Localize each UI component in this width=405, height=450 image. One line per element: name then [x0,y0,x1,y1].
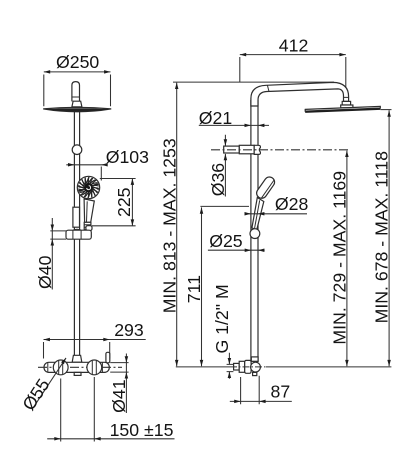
svg-text:Ø36: Ø36 [208,163,228,197]
dimension 293 extension lines [44,342,110,359]
valve centerline [176,366,392,368]
wall union stub [234,363,240,370]
slider bracket [66,230,91,239]
riser pipe right column [251,101,258,362]
arm end nut [342,101,350,105]
svg-text:Ø250: Ø250 [56,52,99,72]
dimension 87 extension lines [241,376,260,405]
overhead shower stub [72,82,80,102]
dimension 711 extension line [200,205,249,207]
dimension 412 line [240,54,346,56]
overhead shower disk [43,107,111,111]
top extension line for MIN 813 [173,81,334,83]
slider sleeve [73,207,80,227]
dimension D41 line [125,354,127,414]
svg-text:150 ±15: 150 ±15 [110,420,174,440]
svg-text:MIN. 729 - MAX. 1169: MIN. 729 - MAX. 1169 [329,171,349,345]
mixer body [44,362,109,372]
dimension D103 line [66,164,105,166]
svg-text:Ø41: Ø41 [109,379,129,412]
svg-text:Ø28: Ø28 [275,194,309,214]
svg-text:412: 412 [279,36,309,56]
dimension D28 line [245,213,307,215]
dimension 150 extension lines [61,377,95,442]
svg-text:225: 225 [114,187,134,217]
overhead shower plate right [305,106,380,111]
valve inlet nut [251,357,258,361]
dimension D40 extension lines [50,231,66,239]
top arm [251,82,349,106]
svg-text:Ø25: Ø25 [209,231,243,251]
dimension D40 line [51,218,53,290]
wall union middle [239,361,245,372]
dimension D55 leader [33,358,66,408]
dimension MIN678 line [388,110,390,366]
dimension 293 line [44,339,146,341]
dimension 225 extension lines [92,179,136,226]
mixer right nut [87,360,102,375]
overhead shower nut [72,101,82,107]
mixer lever [106,352,110,363]
dimension 87 line [230,400,292,402]
svg-text:Ø21: Ø21 [199,108,232,128]
dimension D36 line [224,135,226,197]
wall bracket clamp [254,145,260,154]
wall bracket arm [224,146,240,153]
mixer spout tab [74,372,81,375]
dimension G12 extension lines [227,364,234,371]
bracket centerline [211,149,349,151]
dimension 412 extension lines [240,57,346,96]
mixer centerline [38,366,122,368]
extension line plate tip [381,109,392,111]
ball joint right column [250,229,260,239]
svg-text:87: 87 [271,382,291,402]
dimension MIN813 line [176,83,178,367]
dimension 711 line [201,207,203,366]
valve tab below [253,372,257,375]
svg-text:711: 711 [184,275,204,303]
hand shower handle left [84,199,94,222]
svg-text:G 1/2" M: G 1/2" M [212,284,232,353]
hand shower head right [255,175,277,200]
svg-text:Ø40: Ø40 [35,255,55,289]
mixer left nut [53,360,68,375]
ball joint left column [72,145,82,155]
dimension 150 line [47,438,174,440]
dimension D21 line [199,124,269,126]
dimension D25 line [208,249,265,251]
wire riser pipe left column [74,107,79,356]
svg-text:293: 293 [114,320,144,340]
dimension G12 line [228,353,230,379]
arm end flange [341,105,353,108]
dimension D250 line [44,71,111,73]
slider bracket knob [86,226,92,231]
valve ball circle [251,362,261,372]
svg-text:MIN. 678 - MAX. 1118: MIN. 678 - MAX. 1118 [372,151,392,324]
hand shower handle connector [84,222,91,229]
wall union body [245,360,251,373]
wall bracket sleeve [239,145,254,154]
mixer inlet nut [72,355,82,362]
hand shower handle right [252,198,264,230]
hand shower head left [77,176,99,198]
dimension D41 extension lines [110,363,128,373]
extension lines D250 [44,75,111,107]
svg-text:MIN. 813 - MAX. 1253: MIN. 813 - MAX. 1253 [159,138,179,313]
svg-text:Ø103: Ø103 [106,147,149,167]
dimension MIN729 line [346,151,348,367]
dimension 225 line [131,179,133,226]
